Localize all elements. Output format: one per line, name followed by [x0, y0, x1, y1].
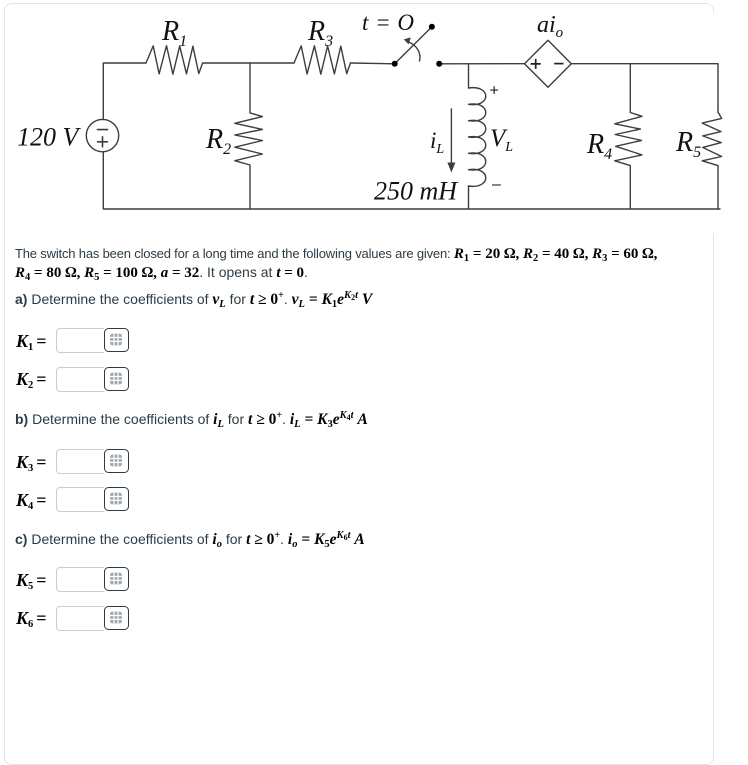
voltage source circle [86, 119, 118, 151]
K2 input box [56, 367, 104, 392]
inductor coil (6 scallops) [469, 88, 486, 187]
svg-text:+: + [490, 83, 499, 100]
K6 label [16, 608, 47, 629]
wire: top-left from corner to R1 [103, 63, 146, 120]
switch opening arc arrow [408, 42, 420, 62]
part b prompt [15, 410, 368, 429]
wire: R3 to switch [351, 62, 395, 65]
K4 input box [56, 487, 104, 512]
source plus sign [98, 137, 108, 147]
K6 input box [56, 606, 104, 631]
wire: switch right dot to diamond [439, 63, 524, 65]
resistor R4 vertical [615, 64, 642, 209]
resistor R5 vertical [702, 112, 721, 209]
part c prompt [15, 530, 365, 549]
K3 label [16, 452, 47, 473]
iL arrowhead [447, 163, 455, 173]
source minus sign [98, 129, 108, 131]
circuit schematic image area [0, 0, 748, 233]
switch node dot right [436, 61, 442, 67]
K2 label [16, 369, 47, 390]
wire: R1 to R3 (node at R2) [203, 62, 294, 64]
wire: diamond to top-right corner, down to R5 [571, 64, 718, 112]
K3 input box [56, 449, 104, 474]
K5 label [16, 570, 47, 591]
inductor branch top wire [468, 64, 470, 88]
inductor branch bottom wire [468, 186, 470, 209]
K6 keypad button [104, 606, 129, 630]
K3 keypad button [104, 449, 129, 473]
diamond plus sign [531, 59, 541, 69]
K2 keypad button [104, 367, 129, 391]
current arrow iL [450, 109, 452, 166]
switch arc arrowhead [404, 37, 411, 44]
resistor R3 [294, 46, 351, 74]
resistor R2 vertical [235, 63, 263, 209]
problem statement line 1 [15, 246, 657, 263]
K1 input box [56, 328, 104, 353]
K4 keypad button [104, 487, 129, 511]
K4 label [16, 490, 47, 511]
switch blade [395, 27, 432, 64]
K5 input box [56, 567, 104, 592]
svg-text:250 mH: 250 mH [374, 177, 458, 206]
K1 keypad button [104, 328, 129, 352]
dependent source diamond U1 [525, 40, 572, 87]
switch node dot left [392, 61, 398, 67]
part a prompt [15, 290, 372, 309]
resistor R1 [146, 46, 203, 74]
problem statement line 2 [15, 264, 308, 282]
wire: source bottom to bottom-left corner [103, 152, 720, 209]
K5 keypad button [104, 567, 129, 591]
diamond minus sign [554, 63, 563, 65]
svg-text:120 V: 120 V [17, 123, 82, 152]
switch blade end dot [429, 24, 435, 30]
svg-text:–: – [492, 176, 501, 193]
K1 label [16, 331, 47, 352]
svg-text:t = O: t = O [362, 10, 415, 35]
